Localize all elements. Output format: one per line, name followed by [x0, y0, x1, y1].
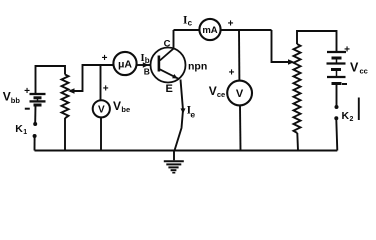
wire V_bb top loop	[36, 66, 66, 94]
svg-text:B: B	[144, 67, 150, 77]
minus sign V_cc	[342, 83, 347, 85]
transistor Q1 npn	[151, 48, 186, 83]
battery V_bb	[30, 94, 46, 105]
wire battery to K1	[34, 105, 36, 123]
wire bottom rail	[35, 150, 338, 152]
svg-text:npn: npn	[188, 60, 207, 72]
svg-text:cc: cc	[360, 67, 368, 76]
svg-text:1: 1	[23, 129, 27, 136]
voltmeter V (V_be)	[100, 65, 102, 100]
arrow wiper R2	[288, 59, 295, 64]
ground	[173, 151, 175, 161]
rheostat R1 (left potentiometer)	[62, 75, 69, 119]
wire R1 bottom	[64, 118, 66, 151]
wire collector lead	[173, 30, 175, 48]
milliammeter mA	[199, 19, 220, 40]
wire emitter lead with Ie arrow	[175, 80, 184, 151]
wire rail to R2 wiper	[272, 30, 289, 62]
key K2	[335, 105, 339, 109]
svg-text:V: V	[113, 99, 121, 113]
key K1	[33, 122, 37, 126]
minus sign V_bb	[25, 108, 30, 110]
wire top rail left	[174, 29, 200, 31]
svg-text:+: +	[229, 68, 235, 79]
svg-text:V: V	[209, 84, 217, 98]
svg-text:E: E	[166, 83, 173, 95]
svg-text:c: c	[188, 18, 193, 27]
svg-text:ce: ce	[217, 90, 225, 99]
wire K1 to bottom rail	[34, 137, 36, 151]
svg-text:e: e	[190, 110, 195, 120]
wire R2 top	[297, 31, 337, 52]
svg-text:2: 2	[350, 116, 354, 123]
rheostat R2 (right potentiometer)	[294, 44, 301, 133]
wire battery to K2	[336, 84, 338, 106]
svg-text:V: V	[3, 90, 11, 104]
svg-text:C: C	[164, 38, 171, 49]
svg-text:K: K	[342, 110, 350, 122]
voltmeter V (V_ce)	[227, 81, 252, 106]
svg-text:+: +	[228, 19, 234, 30]
svg-text:V: V	[350, 60, 359, 74]
arrow wiper R1	[68, 88, 75, 94]
svg-text:V: V	[98, 105, 105, 116]
svg-text:+: +	[102, 53, 108, 64]
wire V_ce branch	[238, 30, 240, 81]
wire R1 wiper	[70, 65, 114, 91]
svg-text:+: +	[24, 86, 30, 97]
svg-text:+: +	[344, 45, 350, 56]
wire K2 to bottom rail	[336, 120, 337, 151]
wire uA to base with Ib arrow	[137, 64, 151, 66]
svg-text:b: b	[145, 56, 150, 65]
svg-text:mA: mA	[202, 25, 217, 36]
svg-text:bb: bb	[11, 96, 21, 105]
wire R2 bottom	[296, 133, 299, 151]
ammeter uA	[113, 52, 136, 75]
svg-text:V: V	[236, 88, 244, 100]
svg-text:+: +	[103, 84, 109, 95]
battery V_cc	[327, 52, 347, 84]
wire top rail right	[221, 29, 272, 31]
key K2 bar	[358, 98, 360, 121]
svg-text:be: be	[121, 105, 130, 114]
svg-text:μA: μA	[118, 58, 132, 70]
svg-text:K: K	[15, 123, 23, 135]
